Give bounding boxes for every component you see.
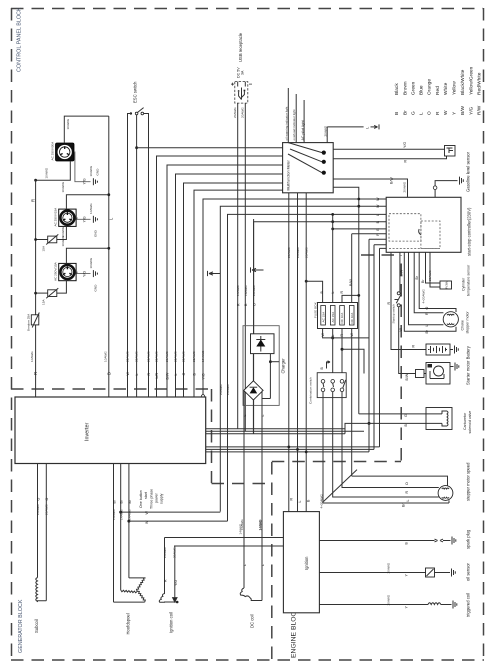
charger feed wire [253, 219, 255, 334]
svg-text:B/W: B/W [405, 373, 409, 380]
junction entry B2 [331, 228, 334, 231]
svg-text:L: L [261, 564, 265, 566]
wire USB plus down [237, 103, 239, 429]
svg-text:GND: GND [96, 168, 100, 176]
wire entry6 R from fuse feed [352, 233, 387, 235]
wire spark plug row [319, 540, 429, 542]
wire subcoil O2 [45, 464, 47, 601]
svg-text:20AWG: 20AWG [241, 107, 245, 118]
svg-text:Hoofdspoel: Hoofdspoel [126, 613, 131, 634]
svg-text:Choke: Choke [461, 320, 465, 330]
svg-text:R: R [147, 373, 151, 376]
svg-text:W: W [126, 372, 130, 376]
wire L drop to ignition [297, 193, 299, 512]
svg-text:20AWG: 20AWG [233, 107, 237, 118]
svg-text:10AWG: 10AWG [89, 165, 93, 176]
wire inverter right out 3 [206, 433, 345, 435]
junction fuse2 feed [331, 213, 334, 216]
svg-text:Green: Green [411, 81, 417, 95]
junction R drop [287, 446, 290, 449]
svg-text:10AWG: 10AWG [30, 351, 34, 362]
svg-text:GND: GND [94, 284, 98, 292]
wire outlet P3 bottom to fuse F2 [57, 281, 67, 293]
wire O vertical [254, 222, 387, 434]
svg-text:W: W [376, 204, 380, 208]
svg-text:AC 15A: AC 15A [331, 311, 335, 323]
svg-text:R: R [387, 302, 391, 305]
junction B vertical [368, 422, 371, 425]
svg-text:R: R [412, 345, 416, 348]
svg-text:Y/G: Y/G [403, 142, 407, 148]
wire USB minus down [244, 103, 246, 431]
svg-text:start: start [144, 492, 148, 499]
svg-text:AC 250V/30A: AC 250V/30A [51, 141, 55, 161]
lamp diagonal 1 [288, 143, 322, 153]
generator block right boundary dashed [211, 389, 213, 483]
wire nest vertical G [184, 183, 283, 397]
svg-text:20AWG: 20AWG [165, 351, 169, 362]
svg-text:W: W [321, 333, 325, 337]
fuse F1 15A [46, 234, 58, 244]
wire starter to ground [450, 366, 454, 368]
wire rectifier below to bus [252, 400, 254, 434]
svg-text:R: R [405, 491, 409, 494]
wire diode box right leg [262, 354, 270, 399]
wire G to solenoid valve [359, 413, 426, 415]
svg-text:DC coil: DC coil [250, 614, 255, 628]
ignition box [283, 512, 319, 613]
svg-text:20AWG: 20AWG [305, 247, 309, 258]
svg-text:Br: Br [403, 110, 409, 115]
svg-text:22AWG: 22AWG [174, 351, 178, 362]
svg-text:20AWG: 20AWG [36, 504, 40, 515]
controller inner dashed rect 1 [389, 214, 421, 241]
svg-text:L: L [376, 214, 380, 216]
svg-text:Brown: Brown [403, 81, 409, 95]
wire outlet P2 ground lead [76, 218, 90, 220]
fuse AC1 [321, 306, 326, 326]
wire maincoil Br3 [128, 464, 130, 578]
wire trigger coil to ground [441, 604, 452, 606]
svg-text:B/W: B/W [165, 372, 169, 379]
wire ESC pole A down (W) [128, 114, 131, 398]
maincoil winding sawtooth B [121, 590, 138, 593]
svg-text:R: R [164, 579, 168, 582]
junction G feed on W bus 1 [357, 198, 360, 201]
controller inner switch arc [419, 229, 421, 235]
wire maincoil Br2 [120, 464, 122, 591]
junction B drop [305, 451, 308, 454]
lamp diagonal 2 [290, 149, 322, 162]
svg-text:20AWG: 20AWG [226, 384, 230, 395]
svg-text:White: White [443, 82, 449, 95]
svg-text:14AWG: 14AWG [236, 285, 240, 296]
svg-text:AC 250V/15A: AC 250V/15A [54, 261, 58, 281]
wire ESC pole B down (L) [136, 115, 138, 397]
svg-text:B/W: B/W [349, 279, 353, 286]
wire controller out O to choke [419, 252, 456, 312]
svg-text:Y/G: Y/G [201, 373, 205, 379]
svg-text:Yellow/Green: Yellow/Green [469, 66, 475, 95]
starter motor box [426, 363, 450, 385]
svg-text:GND: GND [94, 229, 98, 237]
svg-text:20AWG: 20AWG [428, 270, 432, 281]
wire startup switch down W [399, 307, 416, 374]
battery box [426, 344, 450, 355]
junction L drop [296, 448, 299, 451]
charger outer frame [243, 326, 279, 406]
svg-text:power: power [155, 492, 159, 503]
svg-text:spark plug: spark plug [466, 529, 471, 549]
svg-text:14AWG: 14AWG [112, 509, 116, 520]
combination switch contacts [321, 380, 346, 392]
startup switch [395, 292, 402, 307]
lamp dot 2 [322, 160, 326, 164]
svg-text:Startup switch: Startup switch [391, 304, 395, 324]
svg-text:4×20AWG: 4×20AWG [319, 494, 323, 509]
svg-text:R: R [425, 312, 429, 315]
wire meter aux output to G feed [333, 187, 359, 414]
wire controller terminal to ground [435, 181, 457, 198]
svg-text:R: R [340, 291, 344, 294]
svg-text:10AWG: 10AWG [45, 167, 49, 178]
outlet P1 AC 250V/30A twist lock [56, 143, 75, 161]
svg-text:oil sensor: oil sensor [466, 562, 471, 581]
svg-text:B/W: B/W [400, 269, 404, 276]
svg-text:22AWG: 22AWG [147, 351, 151, 362]
wire inverter right out 4 [206, 446, 380, 448]
svg-text:Black: Black [394, 83, 400, 95]
svg-text:15A: 15A [42, 299, 46, 305]
wire rectifier left leg L [243, 390, 245, 588]
wire controller out Br to temp sensor [426, 252, 441, 283]
border right dashed [483, 8, 485, 660]
fuse AC2 [330, 306, 335, 326]
wire fuse F2 to R bus [36, 292, 48, 294]
junction maincoil W tap1 [119, 511, 122, 514]
wire entry9 [380, 248, 387, 447]
svg-text:O: O [425, 307, 429, 310]
junction fuse jog [331, 336, 334, 339]
svg-text:supply: supply [160, 493, 164, 504]
stepper motor speed motor [438, 486, 453, 501]
svg-text:O: O [405, 482, 409, 485]
wire inverter right out 6 [206, 451, 369, 453]
wire fuse4 to stepper speed [352, 476, 448, 486]
svg-text:18 AWG: 18 AWG [201, 350, 205, 362]
svg-text:solenoid valve: solenoid valve [468, 411, 472, 434]
svg-text:10AWG: 10AWG [104, 351, 108, 362]
svg-text:L: L [243, 415, 247, 417]
svg-text:16AWG: 16AWG [244, 285, 248, 296]
wire outlet P2 top to L bus [66, 195, 109, 209]
ground controller [460, 177, 464, 185]
svg-text:Charger: Charger [281, 358, 286, 374]
svg-text:Ignition: Ignition [304, 556, 309, 570]
choke stepper motor [443, 312, 458, 327]
trigger coil inductor [428, 603, 441, 605]
wire R bus vertical [35, 180, 37, 397]
ground spark plug [452, 537, 456, 545]
svg-text:R: R [404, 160, 408, 163]
svg-text:Starter motor Battery: Starter motor Battery [466, 345, 471, 385]
svg-text:stepper motor: stepper motor [466, 311, 470, 334]
junction charger right leg [269, 360, 272, 363]
fuse F2 15A [46, 288, 58, 298]
svg-text:temperature sensor: temperature sensor [467, 264, 471, 296]
ground GND2 [93, 216, 97, 223]
svg-text:Y/G: Y/G [83, 271, 87, 277]
svg-text:3A: 3A [241, 70, 245, 75]
wire relay to starter [424, 373, 426, 375]
wire fuse2 feed from L bus [332, 214, 334, 302]
gasoline level sensor connector [445, 146, 456, 157]
wire ESC pole C down (R) [144, 114, 149, 398]
wire nest vertical YG with terminal [203, 199, 386, 395]
svg-text:B: B [107, 372, 112, 375]
svg-text:triggered coil: triggered coil [466, 593, 471, 617]
combination switch box [317, 373, 346, 398]
svg-text:14AWG: 14AWG [259, 519, 263, 530]
svg-text:L: L [298, 501, 302, 503]
lamp diagonal 3 [288, 154, 322, 173]
junction G feed on W bus 2 [357, 205, 360, 208]
svg-text:R: R [31, 199, 36, 202]
breaker 25A on R bus [31, 313, 39, 328]
svg-text:L: L [135, 374, 139, 376]
svg-text:stepper motor speed: stepper motor speed [466, 462, 471, 501]
wire outlet P2 bottom to fuse F1 [57, 226, 67, 239]
svg-text:Gasoline level sensor: Gasoline level sensor [466, 151, 471, 192]
svg-text:L: L [331, 292, 335, 294]
svg-text:10AWG: 10AWG [89, 257, 93, 268]
junction R bus outlet P1 [34, 179, 37, 182]
wire W tap1 [121, 511, 221, 513]
svg-text:20AWG: 20AWG [387, 594, 391, 605]
svg-text:overload indicator light: overload indicator light [292, 109, 296, 140]
svg-text:L: L [425, 325, 429, 327]
dc coil winding [240, 588, 262, 601]
svg-text:B/W: B/W [460, 105, 466, 115]
wire fuse2 out [332, 329, 334, 382]
engine block left boundary dashed [271, 462, 273, 660]
controller inner dashed bottom line [389, 247, 440, 249]
wire indicator light lead 1 [287, 88, 289, 143]
ground GND3 [93, 270, 97, 277]
wire controller out L to choke [409, 252, 444, 324]
svg-text:G: G [411, 111, 417, 115]
svg-text:B: B [394, 112, 400, 115]
junction ignition coil [176, 601, 179, 604]
wire inverter right out 5 [206, 448, 374, 450]
junction ESC L branch [135, 146, 138, 149]
carburetor solenoid valve box [426, 408, 452, 430]
svg-text:Orange: Orange [427, 79, 433, 95]
wire fuse1 out jog [323, 329, 333, 338]
svg-text:4×20AWG: 4×20AWG [422, 289, 426, 304]
wire B drop to ignition [305, 193, 307, 512]
wire nest vertical L2 [176, 174, 283, 397]
svg-text:20AWG: 20AWG [163, 547, 167, 558]
maincoil winding sawtooth C [137, 578, 146, 591]
svg-text:20AWG: 20AWG [287, 247, 291, 258]
wire fuse4 out [351, 329, 353, 477]
svg-text:4V3W: 4V3W [445, 281, 449, 290]
wire inverter right out 2 [206, 430, 364, 432]
svg-text:USB receptacle: USB receptacle [238, 32, 243, 62]
charger diode box [251, 334, 275, 354]
svg-text:R: R [289, 498, 293, 501]
engine block upper boundary dashed short [361, 254, 401, 256]
terminal circle inverter YG [201, 395, 204, 398]
junction entry B1 [331, 220, 334, 223]
junction L bus P3 [107, 247, 110, 250]
svg-text:W: W [145, 511, 149, 515]
legend color codes column [394, 105, 483, 115]
lamp dot 1 [322, 151, 326, 155]
svg-text:Subcoil: Subcoil [34, 619, 39, 633]
wire fuse feed 3 R split [342, 295, 359, 302]
maincoil winding sawtooth A [137, 591, 145, 602]
svg-text:22AWG: 22AWG [192, 351, 196, 362]
svg-text:ESC switch: ESC switch [133, 81, 138, 103]
svg-text:AC 15A: AC 15A [321, 311, 325, 323]
wire nest W horizontal to meter [137, 147, 283, 149]
svg-text:22AWG: 22AWG [155, 351, 159, 362]
svg-text:B/W: B/W [390, 177, 394, 184]
svg-text:start-stop controller(230V): start-stop controller(230V) [467, 207, 472, 256]
USB receptacle symbol [231, 82, 252, 104]
svg-text:Y/G: Y/G [174, 580, 178, 586]
svg-text:14AWG: 14AWG [239, 523, 243, 534]
lamp dot 3 [322, 171, 326, 175]
svg-text:20AWG: 20AWG [252, 285, 256, 296]
border bottom dashed [11, 659, 484, 661]
svg-text:Blue: Blue [419, 85, 425, 95]
wire outlet P1 top to L line [64, 116, 109, 143]
svg-text:10AWG: 10AWG [61, 235, 65, 246]
svg-text:L: L [243, 564, 247, 566]
svg-text:W: W [399, 328, 403, 332]
svg-text:20AWG: 20AWG [323, 125, 327, 136]
ground starter [455, 363, 459, 371]
wire B to solenoid valve [345, 423, 426, 433]
svg-text:20AWG: 20AWG [219, 384, 223, 395]
starter relay box [416, 370, 425, 378]
svg-text:oil warning indicator light: oil warning indicator light [284, 106, 288, 140]
svg-text:O: O [36, 498, 40, 501]
arrow terminal L wire [371, 124, 380, 129]
svg-text:22AWG: 22AWG [182, 351, 186, 362]
arrow B(+) [327, 361, 331, 369]
wire battery to ground [450, 349, 453, 351]
svg-text:AC 250V/15A: AC 250V/15A [54, 207, 58, 227]
wire fuse jog to B vertical [333, 338, 369, 424]
svg-text:Black/White: Black/White [460, 69, 466, 95]
wire oil sensor to ground [435, 572, 451, 574]
bridge rectifier diamond [244, 381, 263, 400]
wire nest vertical B/W [167, 165, 283, 397]
wire outlet P3 top to L bus [66, 248, 109, 263]
wire oil sensor row [319, 572, 425, 574]
ignition coil ground arrow [173, 546, 177, 602]
wire outlet P1 ground lead [74, 152, 91, 182]
svg-text:Y/G: Y/G [83, 216, 87, 222]
wire comb switch col3 down [342, 392, 439, 488]
junction L bus P2 [107, 193, 110, 196]
generator engine boundary dashed horizontal [212, 483, 272, 485]
wire fuse feed 4 BW with split [351, 234, 353, 303]
junction R bus F1 [34, 238, 37, 241]
wire rectifier right leg L [261, 391, 263, 601]
wire meter to controller B/W [333, 179, 407, 197]
wire comb switch col1 down [323, 392, 449, 503]
svg-text:Inverter: Inverter [85, 423, 91, 441]
svg-text:L: L [366, 127, 370, 129]
wire L branch top with arrow terminal [327, 126, 363, 128]
ground oil sensor [452, 569, 456, 577]
outlet P2 AC 250V/15A [59, 209, 76, 226]
svg-text:R/W: R/W [477, 105, 483, 115]
ignition coil winding [159, 538, 177, 603]
svg-text:22AWG: 22AWG [126, 351, 130, 362]
wire subcoil O1 [37, 464, 39, 578]
leader line 4x20AWG speed [324, 470, 358, 502]
controller inner dashed rect 2 [421, 221, 440, 248]
svg-text:Cylinder: Cylinder [462, 277, 466, 291]
svg-text:Y/G: Y/G [469, 106, 475, 115]
svg-text:L: L [261, 415, 265, 417]
svg-text:Red/White: Red/White [477, 72, 483, 95]
svg-text:Three phase: Three phase [150, 489, 154, 509]
svg-text:Breaker 25A: Breaker 25A [27, 313, 31, 331]
svg-text:15A: 15A [42, 245, 46, 251]
svg-text:R: R [435, 111, 441, 115]
terminal circle controller top [433, 186, 437, 190]
subcoil winding [36, 578, 47, 602]
wire diode box to rectifier [252, 354, 254, 381]
svg-text:14AWG: 14AWG [119, 509, 123, 520]
ground battery [455, 346, 459, 354]
fuse DC2 [349, 306, 354, 326]
wire ign coil R to ignition box [165, 537, 284, 539]
start-stop controller box [386, 197, 461, 252]
outlet P3 AC 250V/15A [59, 263, 76, 280]
wire W tap1 vertical [220, 206, 386, 511]
svg-text:DC 10A: DC 10A [350, 312, 354, 324]
wire controller out R to choke [414, 252, 443, 312]
spark plug gap symbol [430, 539, 451, 542]
wire controller out Br to choke [404, 252, 456, 331]
wire controller entry B2 [333, 228, 387, 230]
svg-text:20AWG: 20AWG [403, 181, 407, 192]
wire entry7 [369, 239, 386, 452]
chassis arrow ground 2 [251, 267, 264, 272]
svg-text:ENGINE BLOCK: ENGINE BLOCK [291, 607, 298, 658]
svg-text:FUSE BOX: FUSE BOX [314, 302, 318, 318]
wire nest vertical L/R [157, 156, 283, 397]
wire W tap2 vertical [228, 214, 387, 521]
wire nest vertical B [194, 190, 283, 397]
wire ign coil YG to ignition box [174, 545, 283, 547]
svg-text:20AWG: 20AWG [387, 562, 391, 573]
wire fuse3 out with branch [341, 329, 343, 382]
maincoil winding phase1 bottom [114, 601, 145, 603]
svg-text:G: G [182, 373, 186, 376]
wire indicator light lead 3 [303, 100, 305, 143]
svg-text:L/R: L/R [155, 373, 159, 379]
svg-text:L: L [406, 500, 410, 502]
